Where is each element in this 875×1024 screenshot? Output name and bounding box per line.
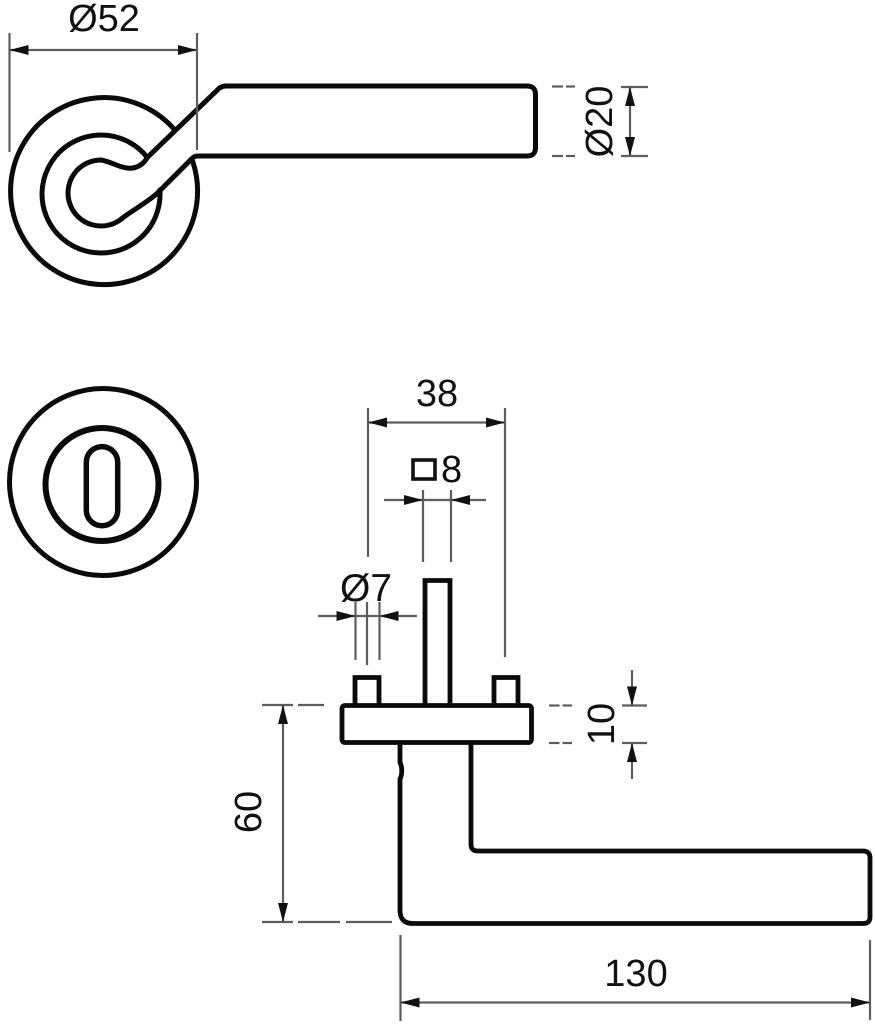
svg-text:10: 10: [581, 703, 623, 745]
svg-text:60: 60: [228, 791, 270, 833]
svg-text:Ø20: Ø20: [579, 86, 621, 158]
svg-text:130: 130: [604, 953, 667, 995]
svg-text:Ø52: Ø52: [68, 0, 140, 40]
svg-text:38: 38: [416, 373, 458, 415]
svg-text:8: 8: [441, 449, 462, 491]
